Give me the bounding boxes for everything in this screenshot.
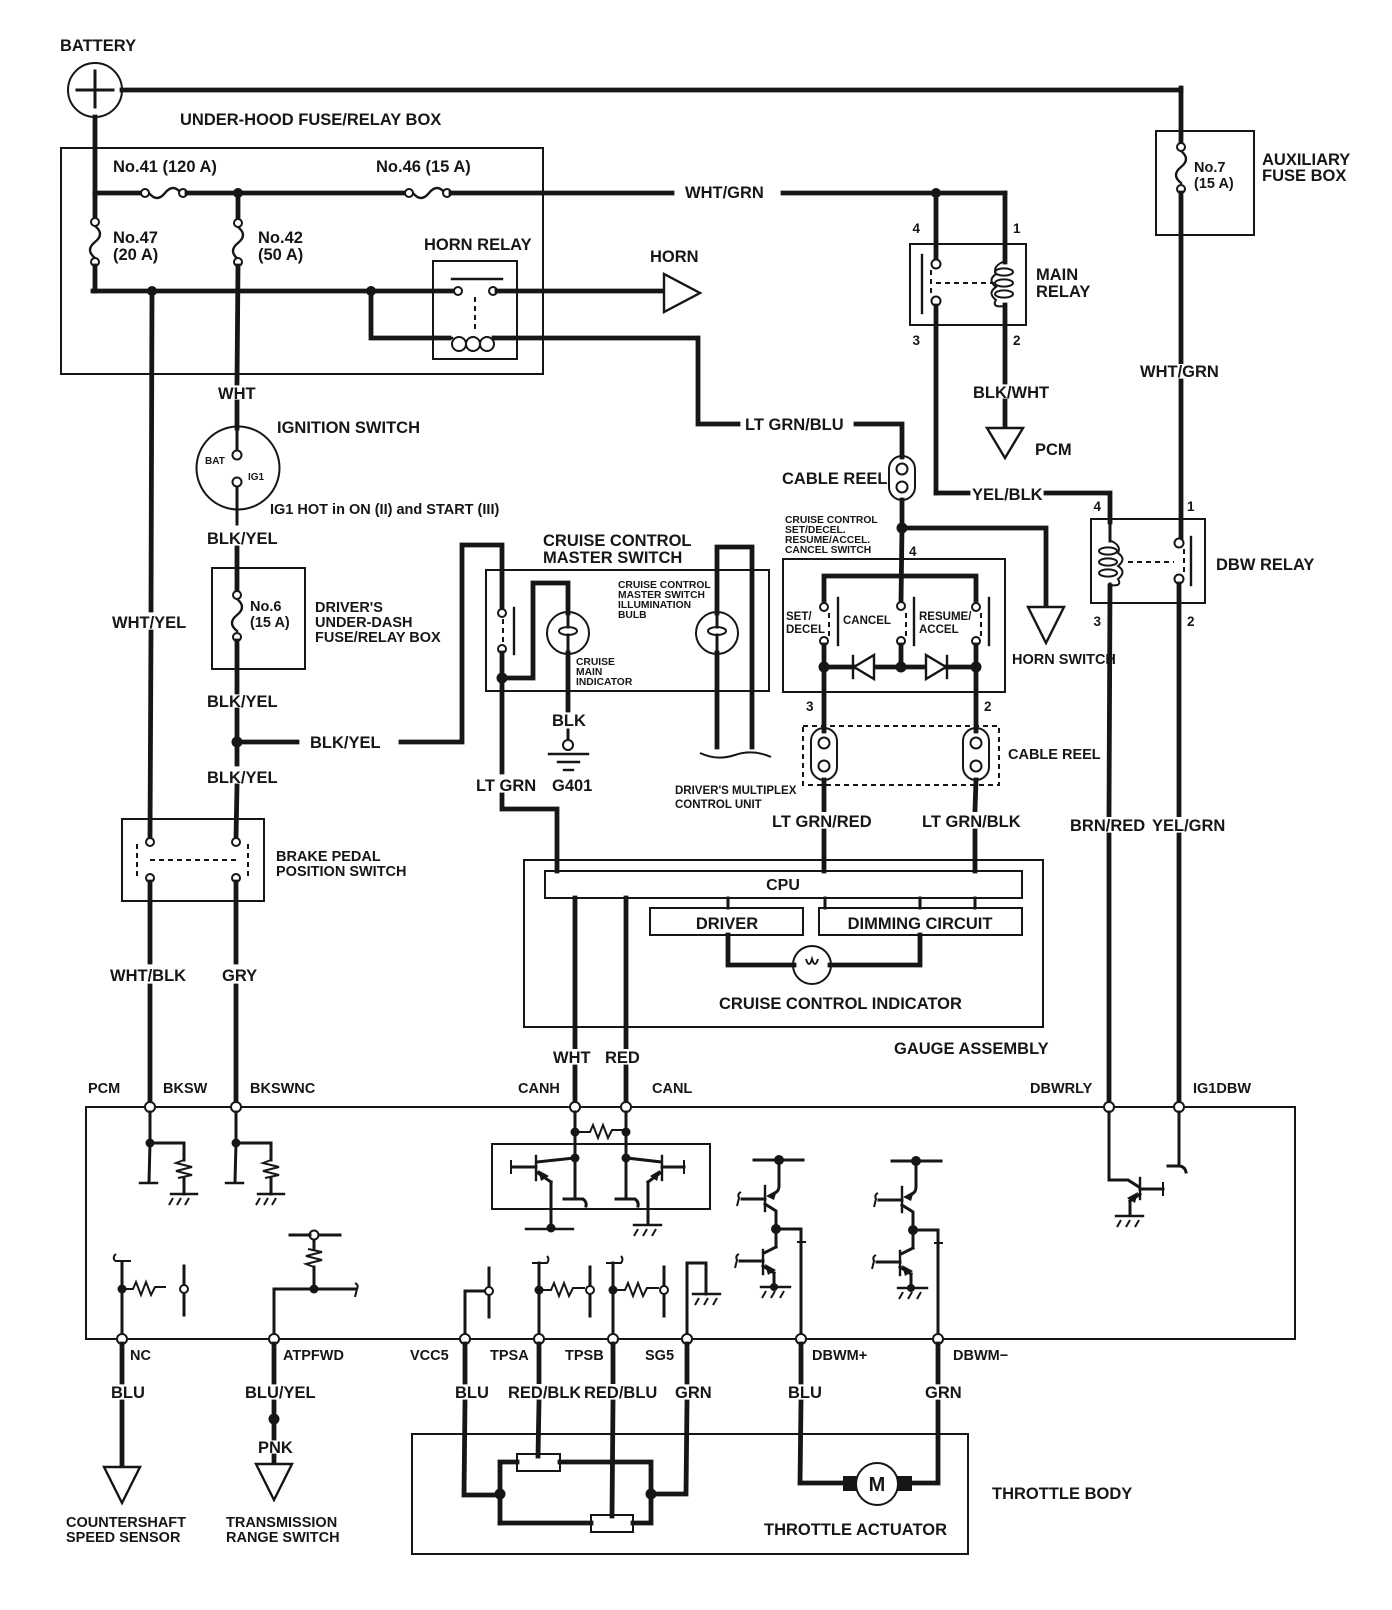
node junction cancel: [896, 662, 907, 673]
svg-text:BRN/RED: BRN/RED: [1070, 817, 1145, 835]
fuse No.6 (15 A): [232, 591, 290, 641]
driver's multiplex control unit brace: [675, 752, 797, 811]
ignition switch: [197, 419, 421, 524]
node CANH: [518, 1081, 580, 1112]
cruise switch assembly box: [783, 559, 1005, 692]
svg-text:BLK/YEL: BLK/YEL: [310, 734, 381, 752]
svg-text:RESUME/: RESUME/: [919, 611, 972, 623]
svg-text:4: 4: [909, 544, 917, 559]
node junction TPS left: [495, 1489, 506, 1500]
wire LT GRN/RED to CPU: [769, 780, 879, 871]
BKSW input circuit: [140, 1112, 197, 1205]
svg-text:POSITION SWITCH: POSITION SWITCH: [276, 864, 407, 880]
node TPSA: [490, 1334, 544, 1364]
wire BLK bulb to ground G401: [552, 653, 586, 740]
wire illumination bulb feed: [717, 547, 752, 747]
svg-text:GAUGE ASSEMBLY: GAUGE ASSEMBLY: [894, 1040, 1049, 1058]
svg-text:BLU: BLU: [111, 1384, 145, 1402]
wire pin3 to cable reel: [806, 667, 824, 731]
wire LT GRN master switch to CPU: [476, 678, 557, 871]
svg-text:BLK: BLK: [552, 712, 586, 730]
svg-text:1: 1: [1187, 499, 1195, 514]
fuse No.42 (50 A): [233, 193, 303, 266]
svg-text:CANCEL SWITCH: CANCEL SWITCH: [785, 545, 871, 556]
svg-text:LT GRN/BLU: LT GRN/BLU: [745, 416, 844, 434]
auxiliary fuse box: [1156, 131, 1350, 235]
svg-text:BKSWNC: BKSWNC: [250, 1081, 316, 1097]
DBWM- driver rail: [892, 1156, 941, 1166]
svg-text:(20 A): (20 A): [113, 246, 158, 264]
svg-text:1: 1: [1013, 221, 1021, 236]
wire junction to horn switch: [902, 528, 1046, 606]
set/decel switch: [786, 598, 838, 667]
wire horn relay coil to LT GRN/BLU: [494, 338, 902, 457]
svg-text:BATTERY: BATTERY: [60, 37, 136, 55]
CPU: [545, 871, 1022, 898]
svg-text:2: 2: [1013, 333, 1021, 348]
wire fuse row: [95, 191, 141, 196]
node VCC5: [410, 1334, 470, 1364]
driver block: [650, 898, 803, 935]
node TPSB: [565, 1334, 618, 1364]
node junction BLK/YEL: [232, 737, 243, 748]
svg-text:No.6: No.6: [250, 599, 281, 615]
svg-text:DBWRLY: DBWRLY: [1030, 1081, 1093, 1097]
wire BLK/YEL ignition to under-dash fuse box: [207, 530, 278, 592]
cruise main indicator bulb: [547, 612, 633, 688]
svg-text:BULB: BULB: [618, 610, 647, 621]
wire DBW relay pin2 YEL/GRN to PCM IG1DBW: [1149, 584, 1225, 1104]
throttle actuator motor M: [764, 1463, 947, 1539]
svg-text:3: 3: [1093, 614, 1101, 629]
svg-text:CRUISE CONTROL INDICATOR: CRUISE CONTROL INDICATOR: [719, 995, 962, 1013]
horn: [650, 248, 700, 312]
switch top bar: [824, 576, 976, 603]
wire BLK/YEL junction to cruise master switch: [237, 545, 502, 752]
node junction DBWM+ output: [771, 1224, 781, 1234]
wire BLU DBWM+ to throttle actuator: [788, 1344, 844, 1483]
svg-text:No.47: No.47: [113, 229, 158, 247]
svg-text:IG1DBW: IG1DBW: [1193, 1081, 1251, 1097]
wire main relay pin3 YEL/BLK to DBW relay pin4: [936, 306, 1110, 522]
svg-text:CPU: CPU: [766, 877, 800, 894]
under-hood fuse/relay box: [61, 111, 543, 374]
svg-text:DBWM−: DBWM−: [953, 1348, 1008, 1364]
dimming circuit block: [819, 898, 1022, 935]
wire to horn relay coil: [371, 291, 449, 338]
throttle position sensor loop: [500, 1462, 651, 1523]
wire WHT No.42 down to ignition switch: [214, 266, 256, 428]
horn relay: [424, 236, 532, 359]
cruise control switch label: [785, 515, 878, 556]
wire RED/BLK TPSA to TPS: [504, 1344, 581, 1456]
svg-text:FUSE/RELAY BOX: FUSE/RELAY BOX: [315, 630, 441, 646]
transistor Q7 (DBWRLY driver): [1109, 1112, 1163, 1227]
VCC5 input circuit: [465, 1268, 493, 1334]
svg-text:PCM: PCM: [1035, 441, 1072, 459]
DBW relay: [1091, 499, 1314, 629]
svg-text:(15 A): (15 A): [250, 615, 290, 631]
transistor Q4 (DBWM+ low side): [735, 1229, 790, 1298]
wire GRN SG5 to TPS: [655, 1344, 712, 1494]
wire to cruise main indicator bulb: [502, 583, 568, 678]
svg-text:HORN RELAY: HORN RELAY: [424, 236, 532, 254]
wire between fuses: [187, 191, 405, 196]
illumination bulb label: [618, 580, 711, 621]
wire battery down into under-hood box: [93, 117, 98, 196]
cruise control master switch: [486, 532, 769, 691]
transmission range switch arrow: [226, 1464, 340, 1546]
cable reel connector pin3: [811, 728, 837, 780]
svg-text:CRUISE CONTROL: CRUISE CONTROL: [543, 532, 692, 550]
svg-text:VCC5: VCC5: [410, 1348, 449, 1364]
svg-text:G401: G401: [552, 777, 592, 795]
main relay: [910, 193, 1090, 348]
wire BLK/YEL junction to brake pedal switch: [207, 769, 278, 838]
svg-text:(15 A): (15 A): [1194, 176, 1234, 192]
switch bottom bus: [824, 665, 976, 670]
wire illumination bulb return: [715, 653, 720, 747]
svg-text:BKSW: BKSW: [163, 1081, 208, 1097]
svg-text:DBW RELAY: DBW RELAY: [1216, 556, 1314, 574]
driver's under-dash fuse/relay box: [212, 568, 441, 669]
svg-text:M: M: [869, 1474, 886, 1496]
CAN transceiver box: [492, 1144, 710, 1209]
svg-text:INDICATOR: INDICATOR: [576, 677, 633, 688]
svg-text:RED/BLK: RED/BLK: [508, 1384, 581, 1402]
wire battery to auxiliary fuse box (top bus): [122, 88, 1181, 93]
cancel switch: [843, 598, 914, 667]
brake pedal position switch: [122, 819, 407, 901]
svg-text:WHT: WHT: [553, 1049, 591, 1067]
svg-text:RELAY: RELAY: [1036, 283, 1090, 301]
SG5 ground circuit: [687, 1263, 720, 1334]
svg-text:IGNITION SWITCH: IGNITION SWITCH: [277, 419, 420, 437]
node junction set/decel: [819, 662, 830, 673]
svg-text:SPEED SENSOR: SPEED SENSOR: [66, 1530, 181, 1546]
wire bus No.47 to horn relay: [93, 289, 458, 294]
svg-text:LT GRN/RED: LT GRN/RED: [772, 813, 872, 831]
node junction DBWM- output: [908, 1225, 918, 1235]
wire DBWM- output to pin: [913, 1230, 943, 1334]
node DBWM-: [933, 1334, 1008, 1364]
svg-text:RED/BLU: RED/BLU: [584, 1384, 657, 1402]
svg-text:BLK/YEL: BLK/YEL: [207, 530, 278, 548]
node BKSW: [145, 1081, 208, 1112]
node junction horn relay coil branch: [366, 286, 376, 296]
svg-text:IG1: IG1: [248, 472, 265, 483]
transistor Q5 (DBWM- high side): [874, 1161, 916, 1230]
wire LT GRN/BLK to CPU: [919, 780, 1029, 871]
master switch contacts: [498, 608, 514, 678]
resistor R2 (TPS lower): [591, 1515, 633, 1532]
svg-text:DBWM+: DBWM+: [812, 1348, 867, 1364]
svg-text:WHT/GRN: WHT/GRN: [1140, 363, 1219, 381]
DBWM+ driver rail: [754, 1155, 803, 1165]
svg-text:PCM: PCM: [88, 1081, 120, 1097]
CAN termination resistor: [571, 1112, 631, 1160]
svg-text:2: 2: [1187, 614, 1195, 629]
svg-text:2: 2: [984, 699, 992, 714]
wire cable reel to switch junction: [900, 500, 905, 528]
node junction at No.42 top: [233, 188, 243, 198]
wire DBW relay pin3 BRN/RED to PCM DBWRLY: [1068, 586, 1145, 1104]
svg-text:WHT/YEL: WHT/YEL: [112, 614, 186, 632]
throttle body box: [412, 1434, 1132, 1554]
svg-text:HORN SWITCH: HORN SWITCH: [1012, 652, 1116, 668]
wire GRN DBWM- to throttle actuator: [911, 1344, 962, 1483]
svg-text:No.41 (120 A): No.41 (120 A): [113, 158, 217, 176]
svg-text:3: 3: [806, 699, 814, 714]
svg-text:THROTTLE BODY: THROTTLE BODY: [992, 1485, 1132, 1503]
svg-text:LT GRN/BLK: LT GRN/BLK: [922, 813, 1021, 831]
svg-text:ATPFWD: ATPFWD: [283, 1348, 344, 1364]
diode D2 (points right): [926, 655, 947, 679]
svg-text:CABLE REEL: CABLE REEL: [782, 470, 887, 488]
svg-text:LT GRN: LT GRN: [476, 777, 536, 795]
resistor R1 (TPS upper): [517, 1454, 560, 1471]
svg-text:COUNTERSHAFT: COUNTERSHAFT: [66, 1515, 186, 1531]
svg-text:WHT/BLK: WHT/BLK: [110, 967, 186, 985]
svg-text:RED: RED: [605, 1049, 640, 1067]
node CANL: [621, 1081, 692, 1112]
svg-text:TPSB: TPSB: [565, 1348, 604, 1364]
wire WHT/YEL under-hood box to brake pedal switch: [110, 291, 190, 838]
node junction pin4/horn switch: [897, 523, 908, 534]
node NC: [117, 1334, 151, 1364]
wire BLU/YEL ATPFWD to transmission range switch: [245, 1344, 316, 1438]
TPSB input circuit: [606, 1256, 668, 1334]
node junction WHT/YEL branch: [147, 286, 157, 296]
svg-text:MASTER SWITCH: MASTER SWITCH: [543, 549, 682, 567]
svg-text:BLU: BLU: [455, 1384, 489, 1402]
svg-text:YEL/GRN: YEL/GRN: [1152, 817, 1225, 835]
svg-text:No.7: No.7: [1194, 160, 1225, 176]
svg-text:NC: NC: [130, 1348, 151, 1364]
resume/accel switch: [919, 598, 989, 667]
transistor Q6 (DBWM- low side): [872, 1230, 927, 1299]
CAN transistor Q1 (CANH): [511, 1154, 586, 1233]
NC input circuit: [114, 1254, 188, 1334]
wire pin4 into switch box: [901, 528, 917, 602]
svg-text:CONTROL UNIT: CONTROL UNIT: [675, 799, 762, 811]
svg-text:No.46 (15 A): No.46 (15 A): [376, 158, 471, 176]
cable reel (lower, dashed): [803, 726, 1101, 785]
wire pin2 to cable reel: [976, 667, 992, 731]
svg-text:HORN: HORN: [650, 248, 699, 266]
wire BLU VCC5 to TPS: [455, 1344, 496, 1495]
ATPFWD input circuit: [274, 1231, 358, 1335]
svg-text:DRIVER: DRIVER: [696, 915, 758, 933]
PCM arrow (main relay): [987, 428, 1072, 459]
fuse No.41 (120 A): [113, 158, 217, 198]
node IG1DBW: [1174, 1081, 1251, 1112]
svg-text:WHT/GRN: WHT/GRN: [685, 184, 764, 202]
node junction resume/accel: [971, 662, 982, 673]
wire WHT/BLK brake switch to PCM BKSW: [107, 882, 189, 1104]
wire RED CPU to CANL: [602, 898, 644, 1104]
wire WHT/GRN aux fuse to DBW relay pin1: [1138, 193, 1224, 541]
svg-text:BAT: BAT: [205, 456, 225, 467]
svg-text:CABLE REEL: CABLE REEL: [1008, 747, 1101, 763]
diode D1 (points left): [853, 655, 874, 679]
wire main relay pin2 BLK/WHT to PCM arrow: [970, 305, 1049, 427]
cable reel connector pin2: [963, 728, 989, 780]
svg-text:GRN: GRN: [925, 1384, 962, 1402]
battery: [60, 37, 136, 117]
svg-text:FUSE BOX: FUSE BOX: [1262, 167, 1346, 185]
node DBWRLY: [1030, 1081, 1114, 1112]
svg-text:3: 3: [912, 333, 920, 348]
node junction master switch output: [497, 673, 508, 684]
wire top bus down to aux fuse box: [1179, 88, 1184, 147]
node junction main relay pin4 branch: [931, 188, 941, 198]
ground G401: [549, 740, 592, 795]
svg-text:BLK/YEL: BLK/YEL: [207, 693, 278, 711]
node DBWM+: [796, 1334, 867, 1364]
BKSWNC input circuit: [226, 1112, 284, 1205]
svg-text:(50 A): (50 A): [258, 246, 303, 264]
node BKSWNC: [231, 1081, 316, 1112]
node ATPFWD: [269, 1334, 344, 1364]
wire GRY brake switch to PCM BKSWNC: [219, 882, 259, 1104]
fuse No.7 (15 A): [1176, 143, 1234, 193]
wire horn relay to horn: [497, 289, 664, 294]
svg-text:SET/: SET/: [786, 611, 812, 623]
wire WHT/GRN fuse No.46 to main relay: [451, 184, 1005, 202]
node splice PNK: [269, 1414, 280, 1425]
svg-text:BLU/YEL: BLU/YEL: [245, 1384, 316, 1402]
svg-text:BLU: BLU: [788, 1384, 822, 1402]
svg-text:4: 4: [912, 221, 920, 236]
svg-text:UNDER-DASH: UNDER-DASH: [315, 615, 412, 631]
svg-text:DRIVER'S MULTIPLEX: DRIVER'S MULTIPLEX: [675, 785, 797, 797]
countershaft speed sensor arrow: [66, 1467, 186, 1546]
node SG5: [645, 1334, 692, 1364]
wire DBWM+ output to pin: [776, 1229, 806, 1334]
svg-text:SG5: SG5: [645, 1348, 674, 1364]
wire BLK/YEL fuse No.6 to junction: [207, 641, 278, 764]
svg-text:No.42: No.42: [258, 229, 303, 247]
wire RED/BLU TPSB to TPS: [580, 1344, 657, 1516]
wire BLU NC to countershaft speed sensor: [111, 1344, 145, 1466]
svg-text:GRY: GRY: [222, 967, 257, 985]
svg-text:YEL/BLK: YEL/BLK: [972, 486, 1043, 504]
transistor Q3 (DBWM+ high side): [737, 1160, 779, 1229]
wire WHT CPU to CANH: [550, 898, 594, 1104]
wire PNK: [258, 1439, 293, 1464]
cruise control indicator bulb: [719, 935, 962, 1013]
cable reel connector (upper): [782, 456, 915, 500]
svg-text:CANCEL: CANCEL: [843, 615, 891, 627]
svg-text:DRIVER'S: DRIVER'S: [315, 600, 383, 616]
svg-text:BLK/WHT: BLK/WHT: [973, 384, 1049, 402]
svg-text:BLK/YEL: BLK/YEL: [207, 769, 278, 787]
wire IG1DBW stub: [1168, 1112, 1186, 1172]
PCM box: [86, 1081, 1295, 1339]
svg-text:ACCEL: ACCEL: [919, 624, 959, 636]
svg-text:UNDER-HOOD FUSE/RELAY BOX: UNDER-HOOD FUSE/RELAY BOX: [180, 111, 441, 129]
TPSA input circuit: [532, 1256, 594, 1334]
svg-text:GRN: GRN: [675, 1384, 712, 1402]
svg-text:DIMMING CIRCUIT: DIMMING CIRCUIT: [848, 915, 993, 933]
svg-text:TPSA: TPSA: [490, 1348, 529, 1364]
gauge assembly box: [524, 860, 1049, 1058]
svg-text:THROTTLE ACTUATOR: THROTTLE ACTUATOR: [764, 1521, 947, 1539]
node junction TPS right: [646, 1489, 657, 1500]
svg-text:CANL: CANL: [652, 1081, 692, 1097]
fuse No.46 (15 A): [376, 158, 471, 198]
fuse No.47 (20 A): [90, 193, 158, 291]
svg-text:4: 4: [1093, 499, 1101, 514]
svg-text:RANGE SWITCH: RANGE SWITCH: [226, 1530, 340, 1546]
illumination bulb: [696, 612, 738, 654]
svg-text:CANH: CANH: [518, 1081, 560, 1097]
svg-text:DECEL: DECEL: [786, 624, 825, 636]
svg-text:BRAKE PEDAL: BRAKE PEDAL: [276, 849, 381, 865]
svg-text:MAIN: MAIN: [1036, 266, 1078, 284]
horn switch: [1012, 607, 1116, 668]
CAN transistor Q2 (CANL): [616, 1154, 684, 1237]
svg-text:IG1 HOT in ON (II) and START (: IG1 HOT in ON (II) and START (III): [270, 502, 499, 518]
svg-text:TRANSMISSION: TRANSMISSION: [226, 1515, 337, 1531]
